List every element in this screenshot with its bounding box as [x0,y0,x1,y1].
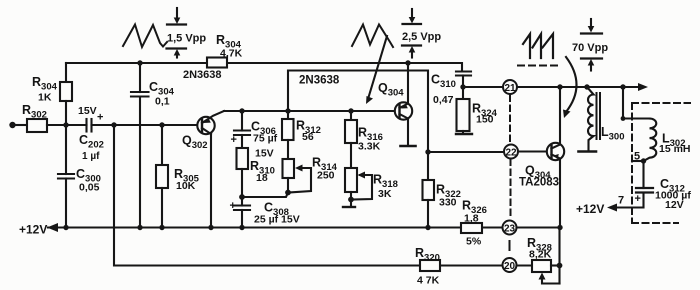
svg-text:21: 21 [504,83,516,94]
transistor Q304 (2N3638) [395,102,412,119]
node R312 base crossing [285,108,290,113]
wire C312 to +12V arrow [613,193,644,208]
node D junction [239,108,244,113]
wire R302 to node A [47,124,87,126]
dashed shield box L302 [632,103,690,223]
svg-text:150: 150 [476,114,494,126]
wire node E to R314 bottom [242,193,288,198]
capacitor C300 [65,125,67,174]
svg-text:3.3K: 3.3K [358,141,381,153]
svg-text:+12V: +12V [576,202,604,216]
waveform 2,5Vpp triangle [352,25,393,48]
svg-text:10K: 10K [176,180,196,192]
svg-text:0,1: 0,1 [155,96,170,108]
feedback wire to R320 [114,125,502,266]
dashed IC pin line [510,96,511,251]
wire pin23 to emitter node [517,226,561,228]
svg-text:56: 56 [302,131,314,143]
resistor R320 [420,260,440,271]
capacitor C306 [241,111,243,131]
transistor Q304 TA2083 [547,143,564,160]
measure 1,5 Vpp [176,8,178,19]
annotation arrow to Q304 base [368,36,387,99]
svg-text:8,2K: 8,2K [529,249,552,261]
node C junction [159,122,164,127]
svg-text:TA2083: TA2083 [519,177,559,189]
svg-text:2,5 Vpp: 2,5 Vpp [402,31,441,43]
transistor Q302 [197,117,214,134]
inductor L300 [587,87,594,151]
pin 22 [504,145,518,159]
resistor R305 [161,125,163,165]
potentiometer R314 [283,159,295,178]
capacitor C202 [85,119,87,132]
node C310/R324 [460,84,465,89]
svg-text:1 µf: 1 µf [82,151,100,162]
node A junction [63,122,68,127]
resistor R304 (1K) [60,82,72,101]
svg-text:4 7K: 4 7K [417,275,440,287]
wire TA2083 emitter down [559,159,561,228]
potentiometer R318 [345,168,357,192]
wire base line Q304 [242,110,395,112]
svg-text:+: + [97,112,103,124]
wire pin22 to TA2083 base [518,150,547,152]
pin 20 [503,258,517,272]
svg-text:+: + [231,134,237,146]
wire C306 to R310 [241,135,243,148]
svg-text:1,5 Vpp: 1,5 Vpp [167,33,206,45]
wire Q302 collector down [210,134,212,228]
svg-text:7: 7 [618,195,624,207]
waveform 70Vpp sawtooth [523,34,553,58]
inductor L302 [644,119,657,162]
svg-text:2N3638: 2N3638 [299,75,340,87]
svg-text:18: 18 [256,172,268,184]
core L300 [596,93,598,139]
resistor R312 [282,119,294,140]
svg-text:1K: 1K [38,92,52,104]
svg-text:15V: 15V [78,105,97,117]
wire top supply rail [66,63,462,71]
resistor R302 [27,119,47,132]
svg-text:3K: 3K [378,188,392,200]
svg-text:4,7K: 4,7K [220,48,243,60]
svg-text:15 mH: 15 mH [659,143,691,155]
svg-text:2N3638: 2N3638 [183,69,222,81]
svg-text:23: 23 [504,223,516,234]
svg-text:20: 20 [504,261,516,272]
capacitor C312 [642,161,644,188]
svg-text:70 Vpp: 70 Vpp [572,42,608,54]
node TA2083 collector [557,84,562,89]
resistor R326 [461,223,482,233]
svg-text:+: + [635,193,641,205]
wire R312 top / collector link [288,71,428,181]
wire TA2083 collector up [559,87,561,145]
wire x428 to pin22 line [425,149,430,154]
svg-text:330: 330 [439,197,457,209]
svg-text:75 µf: 75 µf [253,133,278,145]
svg-text:0,47: 0,47 [433,94,454,106]
wire R312 to R314 [287,140,289,159]
svg-text:5: 5 [634,151,640,163]
svg-text:+: + [230,200,236,212]
wire node to pin 21 [463,86,503,88]
resistor R304 (4,7K) in supply rail [207,58,227,68]
svg-text:1,8: 1,8 [464,213,479,225]
wire R328 right to emitter node [551,264,560,266]
ground R318 [350,200,352,207]
wire Q302 emitter to node D [224,110,242,112]
node E junction [239,194,245,200]
wire L302 branch [623,87,650,119]
+12V rail [48,226,502,228]
pin 23 [503,221,517,235]
wire C202 to Q302 base [92,124,198,126]
measure 70 Vpp [590,19,592,27]
ground Q304 emitter [407,119,409,146]
pin 21 [503,80,517,94]
annotation curved arrow [566,57,577,112]
node B junction [111,122,116,127]
wire Q304 collector to rail [407,63,409,104]
resistor R310 [237,148,249,169]
potentiometer R328 [532,260,551,272]
wire pin 21 to output arrow [517,86,643,88]
capacitor C310 [456,70,471,72]
wire R304 1K to base node [65,101,67,125]
resistor R324 [462,87,464,99]
svg-text:5%: 5% [466,236,482,248]
input terminal [9,122,15,128]
pin 5 stub [632,160,644,162]
svg-text:25 µf 15V: 25 µf 15V [254,214,300,226]
capacitor C308 [241,197,243,206]
waveform 1,5Vpp triangle [123,25,167,48]
svg-text:0,05: 0,05 [79,182,100,194]
node L300 top [584,84,589,89]
wire R304 1K branch top [65,63,67,82]
node L302 branch [620,84,625,89]
resistor R322 [423,180,435,200]
wire pin20 to R328 [517,264,533,266]
svg-text:250: 250 [317,170,335,182]
svg-text:+12V: +12V [19,223,47,237]
resistor R316 [350,111,352,120]
svg-text:12V: 12V [665,199,684,211]
wire R310 to node E [241,169,243,197]
svg-text:15V: 15V [255,148,274,160]
capacitor C304 [139,63,141,92]
measure 2,5 Vpp [411,9,413,18]
wire R316 to R318 [350,143,352,168]
sawtooth dashed baseline [518,65,560,67]
R328 wiper loop [542,279,560,284]
svg-text:22: 22 [505,147,517,158]
